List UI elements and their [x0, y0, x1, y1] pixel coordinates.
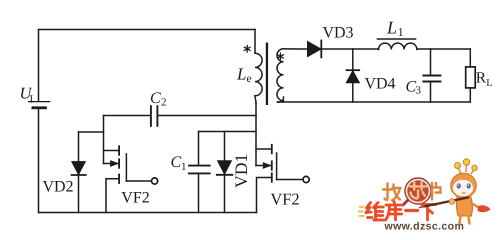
- wire transformer node down to VF2 right bus: [255, 103, 257, 116]
- capacitor C1: [189, 132, 210, 213]
- battery U1 plates: [29, 102, 50, 108]
- svg-text:3: 3: [416, 84, 422, 96]
- wire secondary top to VD3: [284, 48, 308, 50]
- diode VD3: [308, 41, 322, 58]
- svg-text:VF2: VF2: [270, 189, 299, 208]
- wire VF2 bus to C2: [104, 115, 151, 117]
- mascot face: [453, 180, 473, 197]
- wire secondary bottom into bottom-right rail: [278, 97, 284, 102]
- mascot right arm and ribbon: [471, 203, 480, 209]
- mascot pen: [424, 198, 468, 207]
- svg-text:1: 1: [181, 161, 187, 173]
- mascot body: [456, 197, 472, 216]
- polarity mark primary (asterisk): [244, 46, 250, 52]
- watermark char ku: [386, 202, 403, 221]
- svg-text:L: L: [386, 18, 397, 38]
- watermark magnifier with xin: [403, 178, 431, 205]
- mascot head: [451, 173, 477, 198]
- wire RL bottom: [469, 88, 471, 102]
- transistor VF2 (left): [104, 116, 158, 213]
- capacitor C2: [151, 106, 158, 126]
- diode VD4: [346, 49, 359, 102]
- wire VD3 to L1: [321, 48, 378, 50]
- watermark char zhao: [383, 184, 401, 201]
- svg-text:2: 2: [161, 97, 167, 109]
- transformer Le secondary winding: [277, 49, 284, 101]
- mascot eyes: [457, 183, 471, 188]
- resistor RL: [466, 67, 476, 88]
- wire bottom rail: [39, 212, 257, 214]
- wire top rail: [39, 29, 256, 31]
- wire battery negative to bottom rail: [38, 109, 40, 212]
- wire right edge down to RL: [469, 49, 471, 67]
- transformer Le primary winding: [255, 30, 262, 104]
- watermark char yi: [406, 209, 418, 212]
- diode VD1: [217, 132, 233, 213]
- svg-text:L: L: [486, 78, 492, 89]
- wire C2 to transformer node: [158, 115, 256, 117]
- watermark logo: [359, 159, 491, 233]
- mascot left hand: [449, 199, 455, 205]
- watermark char xia: [422, 205, 436, 221]
- wire L1 to right corner: [417, 48, 470, 50]
- mascot legs: [460, 217, 470, 224]
- inductor L1: [378, 39, 417, 50]
- svg-text:VD2: VD2: [42, 179, 73, 196]
- wire C1/VD1 top to transformer node: [199, 131, 257, 133]
- svg-text:1: 1: [398, 25, 404, 39]
- wire bottom-right rail: [278, 101, 471, 103]
- watermark speed dashes: [359, 207, 364, 216]
- svg-text:VD1: VD1: [231, 154, 251, 188]
- polarity mark secondary (asterisk): [278, 53, 284, 59]
- svg-text:VF2: VF2: [121, 190, 149, 207]
- svg-text:VD4: VD4: [364, 76, 395, 93]
- transformer core: [266, 43, 268, 106]
- svg-text:C: C: [171, 154, 182, 171]
- watermark char pian: [432, 183, 441, 200]
- svg-text:e: e: [247, 73, 252, 85]
- wire VD2 top to VF2 bus: [79, 131, 104, 133]
- svg-text:C: C: [150, 90, 161, 107]
- svg-text:VD3: VD3: [322, 25, 353, 42]
- transistor VF2 (right): [256, 116, 309, 213]
- wire left vertical from top rail to battery: [38, 30, 40, 102]
- mascot antennae: [455, 159, 478, 174]
- capacitor C3: [423, 49, 440, 102]
- svg-text:L: L: [236, 65, 246, 84]
- svg-text:I: I: [30, 93, 34, 105]
- watermark char wei: [366, 203, 384, 221]
- svg-text:R: R: [476, 69, 487, 86]
- diode VD2: [72, 132, 86, 213]
- svg-text:www.dzsc.com: www.dzsc.com: [384, 221, 465, 233]
- mascot mouth: [462, 192, 466, 195]
